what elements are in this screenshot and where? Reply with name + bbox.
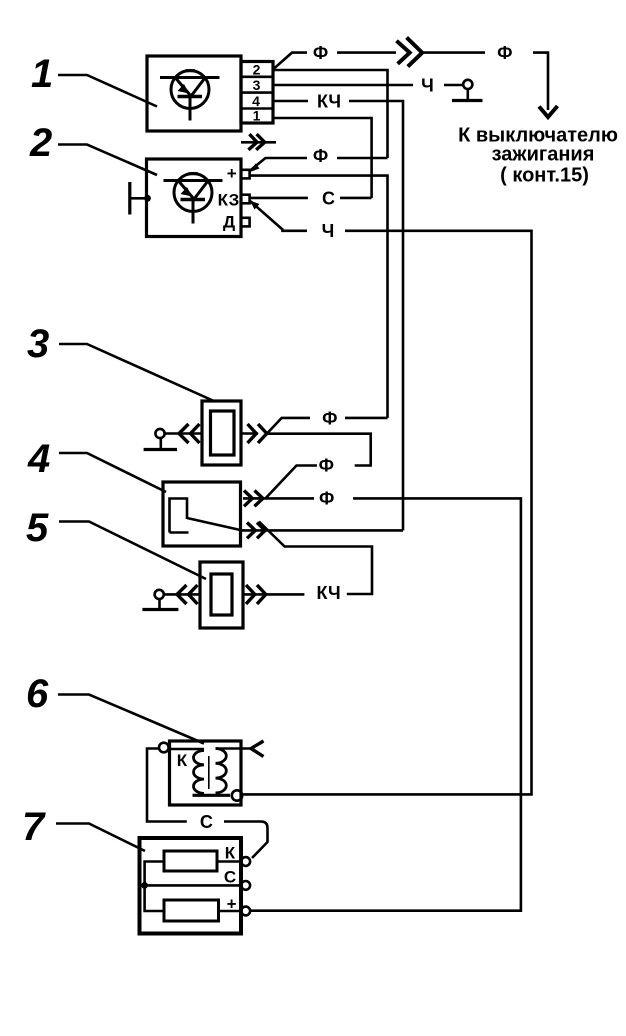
svg-text:+: + (227, 895, 237, 914)
junction dot on box 2 left edge (144, 195, 151, 202)
coil top leads (168, 747, 251, 750)
wire from pin 2 down to F line (273, 70, 388, 158)
svg-text:Ч: Ч (322, 221, 335, 241)
commutator box 1 (147, 56, 241, 131)
wire C to resistor K terminal (224, 822, 268, 859)
transistor T2 inside box 2 (164, 174, 223, 224)
arrowhead at pin KZ (250, 201, 260, 210)
pin D of box 2 (241, 218, 250, 227)
wire from pin + to component 3 (second F run) (250, 176, 388, 418)
svg-text:Ф: Ф (497, 43, 512, 63)
terminal C of box 7 (241, 881, 250, 890)
component 4 upper connector wire F to resistor + (243, 498, 521, 910)
svg-text:Ф: Ф (319, 489, 334, 509)
connector arrows << of component 3 (179, 424, 200, 443)
wire C from pin KZ (250, 197, 372, 200)
label 5 leader (59, 522, 206, 580)
wire F top: connector corner to ignition switch (274, 53, 548, 110)
resistor block box 7 (140, 838, 242, 934)
connector arrows >> of component 3 (248, 424, 267, 443)
connector arrows >> on wire F top (397, 37, 423, 66)
resistor R1 (164, 851, 217, 871)
coil core (208, 756, 210, 789)
svg-text:2: 2 (253, 62, 261, 78)
label 3 leader (59, 344, 215, 402)
diagonal from lower connector to component 5 (259, 522, 372, 595)
wire from pin 3 to ground (273, 84, 463, 87)
through wire of component 3 (165, 432, 259, 435)
wire from pin 1 down to C line (273, 118, 372, 198)
svg-text:КЧ: КЧ (317, 91, 341, 111)
pin + of box 2 (241, 170, 250, 179)
svg-text:К: К (177, 751, 188, 770)
svg-text:4: 4 (27, 437, 50, 481)
ground symbol near Ch wire (452, 80, 483, 101)
connector block of box 1 with pins 2,3,4,1 (241, 62, 273, 124)
box 2 left bar symbol (130, 182, 147, 215)
wire Ch from pin KZ down to ignition coil (243, 201, 532, 795)
suppressor box 5 (200, 562, 243, 628)
svg-text:С: С (322, 188, 335, 208)
svg-text:3: 3 (27, 322, 49, 366)
label 6 leader (58, 695, 204, 744)
svg-text:2: 2 (29, 121, 52, 165)
svg-text:7: 7 (22, 805, 46, 849)
svg-text:1: 1 (253, 108, 261, 124)
hall sensor box 4 (163, 482, 241, 546)
svg-text:С: С (200, 812, 213, 832)
high voltage terminal of coil (251, 741, 264, 757)
connector arrows >> upper of component 4 (244, 491, 263, 507)
connector symbol >> below box 1 (241, 134, 276, 150)
resistor R2 (164, 900, 219, 921)
secondary winding of coil (216, 749, 227, 793)
label 2 leader (58, 145, 157, 176)
svg-text:( конт.15): ( конт.15) (500, 164, 589, 186)
wire from component 3 to component 4 upper connector (266, 434, 371, 498)
wire KCh from pin 4 down to component 4 lower connector (273, 101, 403, 530)
ignition coil box 6 (170, 741, 242, 805)
connector arrows >> of component 5 (246, 585, 266, 604)
svg-text:Ф: Ф (322, 408, 337, 428)
label 1 leader (58, 75, 157, 107)
svg-text:КЧ: КЧ (317, 583, 341, 603)
svg-text:5: 5 (26, 506, 49, 550)
coil left terminal (159, 743, 169, 753)
component 4 lower connector wire to KCh vertical (241, 529, 403, 532)
terminal + of box 7 (241, 907, 250, 916)
wire F from component 3 to second F run (267, 418, 388, 434)
svg-text:3: 3 (253, 77, 261, 93)
ground symbol of component 5 (142, 590, 178, 610)
pin KZ of box 2 (241, 195, 250, 204)
svg-text:КЗ: КЗ (218, 190, 240, 209)
terminal K of box 7 (241, 857, 250, 866)
svg-text:Ч: Ч (421, 75, 434, 95)
inner shape of box 4 (170, 499, 243, 533)
wire F from pin + of box 2 (250, 158, 388, 171)
trigger box 2 (147, 159, 242, 237)
transistor T1 inside box 1 (160, 71, 220, 121)
svg-text:К: К (225, 844, 236, 863)
wire from coil left terminal down to C label (147, 749, 187, 822)
svg-text:зажигания: зажигания (492, 143, 595, 165)
label 7 leader (56, 824, 145, 852)
coil bottom bar (193, 794, 231, 797)
internal wiring of box 7 (145, 862, 242, 912)
connector arrows << of component 5 (177, 585, 198, 604)
svg-text:1: 1 (31, 52, 53, 96)
primary winding of coil (193, 751, 204, 794)
sensor connector box 3 (202, 401, 241, 465)
through wire of component 5 (164, 593, 305, 596)
coil bottom terminal (232, 790, 242, 800)
ground symbol of component 3 (144, 429, 177, 450)
svg-text:6: 6 (26, 672, 49, 716)
connector arrows >> lower of component 4 (247, 523, 265, 539)
svg-text:+: + (227, 164, 237, 183)
label 4 leader (59, 453, 166, 492)
svg-text:Ф: Ф (319, 456, 334, 476)
arrowhead at pin + (250, 164, 260, 173)
junction dot in box 7 (141, 882, 148, 889)
arrow to ignition switch (539, 106, 558, 117)
svg-text:Д: Д (223, 213, 235, 232)
svg-text:С: С (224, 867, 236, 886)
svg-text:Ф: Ф (313, 146, 328, 166)
svg-text:Ф: Ф (313, 43, 328, 63)
